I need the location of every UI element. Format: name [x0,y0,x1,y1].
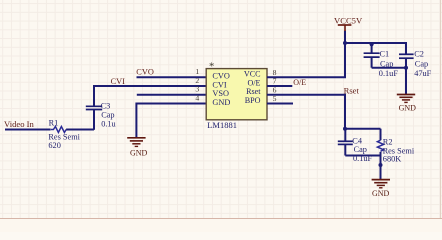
svg-text:R1: R1 [49,119,59,128]
svg-text:VSO: VSO [212,89,229,98]
wire R1 to node under C3 [66,129,94,131]
wire C1 bottom lead [371,57,373,67]
svg-text:LM1881: LM1881 [207,120,237,130]
svg-text:CVI: CVI [111,77,126,86]
wire C3 top lead up to CVI net [93,86,95,106]
svg-text:Rset: Rset [246,87,261,96]
ground symbol bottom right [372,180,390,188]
svg-text:47uF: 47uF [414,69,431,78]
wire R2 top lead [380,129,382,141]
capacitor C2 [399,54,414,58]
sheet border [0,218,442,232]
svg-text:620: 620 [48,141,60,150]
svg-text:R2: R2 [383,137,393,146]
svg-text:VCC5V: VCC5V [334,16,363,26]
wire CVI net to pin 2 [93,85,207,87]
svg-text:0.1u: 0.1u [101,120,116,129]
junction at C2 bottom [404,66,408,70]
svg-text:3: 3 [195,85,199,94]
ground symbol under IC [127,138,145,147]
svg-text:Cap: Cap [101,111,114,120]
wire VSO stub from pin 3 [137,94,207,96]
wire C1 top lead [371,43,373,53]
svg-text:GND: GND [130,148,148,157]
wire C2 top lead [405,42,407,54]
svg-text:*: * [209,61,214,72]
svg-text:Rset: Rset [344,85,360,95]
wire pin 6 Rset net [267,95,345,129]
capacitor C1 [364,53,380,57]
svg-text:VCC: VCC [244,70,261,79]
resistor R2 [377,140,383,151]
wire VCC rail to decoupling caps [345,42,406,44]
svg-text:O/E: O/E [293,78,306,87]
svg-text:CVI: CVI [212,81,227,90]
wire C4 bottom lead [344,145,346,156]
ground symbol top right [397,95,415,103]
svg-text:CVO: CVO [212,72,230,81]
svg-text:CVO: CVO [136,68,154,77]
wire pin 4 GND net [136,104,206,138]
wire CVO net to pin 1 [137,76,207,78]
svg-text:GND: GND [212,98,230,107]
svg-text:0.1uF: 0.1uF [379,69,399,78]
op-amp U? LM1881 IC body [206,69,267,120]
svg-text:O/E: O/E [247,78,260,87]
svg-text:C2: C2 [414,50,424,59]
wire pin 5 BPO stub [267,103,293,105]
wire caps bottom bus [372,58,406,94]
svg-text:Cap: Cap [415,59,428,68]
svg-text:C1: C1 [380,50,390,59]
svg-text:1: 1 [195,67,199,76]
resistor R1 [51,127,66,133]
capacitor C4 [338,141,353,144]
svg-text:4: 4 [195,94,199,103]
svg-text:Video In: Video In [4,119,34,129]
svg-text:2: 2 [195,76,199,85]
svg-text:8: 8 [273,68,277,77]
wire pin 8 VCC up to power rail [267,31,345,78]
wire C3 bottom lead [93,110,95,130]
svg-text:GND: GND [372,189,390,198]
wire C4 top lead [344,129,346,142]
svg-text:Cap: Cap [354,145,367,154]
junction at C1 top [370,42,374,46]
wire bottom bus C4 to R2 [345,155,380,157]
svg-text:GND: GND [399,103,417,112]
capacitor C3 [86,106,102,109]
wire pin 7 to O/E label [267,85,292,87]
power symbol VCC5V [338,25,352,31]
junction at Rset / C4 top [343,127,347,131]
wire Rset to R2 top [345,128,381,130]
svg-text:680K: 680K [383,155,401,164]
svg-text:BPO: BPO [245,96,261,105]
wire Video In to R1 [5,129,51,131]
svg-text:C3: C3 [101,101,111,110]
junction at VCC rail [343,41,347,45]
wire R2 bottom lead to ground [380,152,382,179]
junction at R2 bottom node [379,163,383,167]
